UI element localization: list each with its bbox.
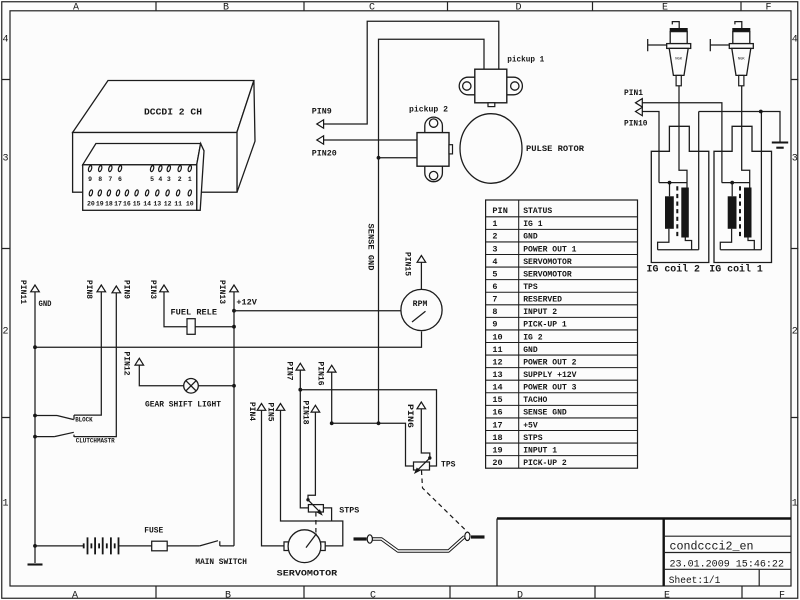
svg-text:PIN9: PIN9 bbox=[122, 280, 131, 299]
svg-text:9: 9 bbox=[492, 320, 497, 330]
svg-text:19: 19 bbox=[96, 201, 104, 208]
svg-text:20: 20 bbox=[87, 201, 95, 208]
throttle left stub bbox=[354, 537, 367, 540]
svg-text:STPS: STPS bbox=[339, 506, 359, 515]
pin arrow PIN12 bbox=[135, 358, 144, 365]
svg-text:14: 14 bbox=[492, 383, 502, 393]
svg-text:14: 14 bbox=[143, 201, 151, 208]
svg-text:18: 18 bbox=[492, 433, 502, 443]
spark plug P1 bbox=[710, 22, 753, 86]
pickup2 body bbox=[417, 133, 449, 167]
pin arrow PIN18 bbox=[311, 405, 320, 412]
svg-text:4: 4 bbox=[3, 35, 9, 46]
throttle right stub bbox=[471, 535, 485, 538]
wire battery to fuse bbox=[119, 545, 152, 547]
STPS right lead bbox=[323, 508, 331, 521]
servo needle bbox=[306, 534, 317, 548]
svg-text:1: 1 bbox=[188, 176, 192, 183]
RPM needle bbox=[412, 311, 426, 322]
wire PIN6 to TPS wiper bbox=[421, 409, 430, 458]
svg-text:8: 8 bbox=[492, 307, 497, 317]
DCCDI box top face bbox=[73, 81, 254, 133]
svg-text:PIN10: PIN10 bbox=[624, 120, 648, 129]
node +12V/lamp bbox=[232, 384, 236, 388]
svg-text:PULSE ROTOR: PULSE ROTOR bbox=[526, 145, 584, 154]
svg-text:POWER OUT 2: POWER OUT 2 bbox=[523, 357, 576, 367]
svg-text:PIN11: PIN11 bbox=[18, 280, 27, 304]
svg-text:FUEL RELE: FUEL RELE bbox=[171, 307, 218, 317]
svg-text:4: 4 bbox=[158, 176, 162, 183]
svg-text:9: 9 bbox=[88, 176, 92, 183]
svg-text:F: F bbox=[779, 591, 785, 600]
svg-text:pickup 2: pickup 2 bbox=[409, 105, 448, 114]
wire PIN4 to servo bbox=[262, 410, 285, 546]
svg-text:A: A bbox=[73, 2, 79, 13]
frame column ticks top bbox=[156, 2, 741, 11]
gauge RPM bbox=[401, 289, 442, 330]
svg-text:TPS: TPS bbox=[523, 282, 538, 292]
fuse F1 bbox=[144, 527, 167, 551]
throttle linkage rod bbox=[354, 532, 485, 551]
svg-text:5: 5 bbox=[492, 269, 497, 279]
svg-text:GND: GND bbox=[39, 300, 52, 309]
svg-text:6: 6 bbox=[492, 282, 497, 292]
svg-text:19: 19 bbox=[492, 445, 502, 455]
svg-text:PIN9: PIN9 bbox=[312, 108, 332, 117]
dashed link STPS to servo bbox=[315, 512, 317, 534]
connector top pin slots 9..6 and 5..1 bbox=[88, 165, 192, 172]
wire tacho ground bus bbox=[35, 332, 422, 348]
svg-text:PIN8: PIN8 bbox=[84, 280, 93, 299]
dashed link TPS to throttle bbox=[422, 471, 468, 533]
svg-text:RPM: RPM bbox=[413, 300, 428, 309]
svg-text:IG 1: IG 1 bbox=[523, 219, 542, 229]
wire TPS left branch bbox=[332, 423, 414, 466]
svg-text:STATUS: STATUS bbox=[523, 206, 552, 216]
node +12V/relay bbox=[232, 325, 236, 329]
svg-text:2: 2 bbox=[792, 327, 798, 338]
svg-text:+12V: +12V bbox=[236, 299, 257, 308]
pin arrow PIN11 bbox=[31, 285, 40, 292]
svg-text:IG coil 2: IG coil 2 bbox=[647, 263, 701, 275]
pulse rotor bbox=[460, 114, 522, 184]
svg-text:4: 4 bbox=[492, 257, 497, 267]
svg-text:SENSE GND: SENSE GND bbox=[523, 408, 567, 418]
wire pickup2 lower terminal bbox=[379, 157, 418, 159]
svg-text:INPUT 1: INPUT 1 bbox=[523, 445, 557, 455]
connector right face bbox=[197, 144, 204, 211]
svg-text:10: 10 bbox=[186, 201, 194, 208]
wire PIN9 to CLUTCHMASTR bbox=[74, 293, 116, 437]
svg-text:4: 4 bbox=[792, 35, 798, 46]
DCCDI unit U1 (3D box) bbox=[73, 81, 255, 193]
TPS wiper arrow bbox=[417, 458, 430, 470]
svg-text:PIN18: PIN18 bbox=[301, 401, 310, 425]
svg-text:13: 13 bbox=[492, 370, 502, 380]
svg-text:FUSE: FUSE bbox=[144, 527, 163, 536]
connector top face bbox=[83, 144, 201, 165]
svg-text:3: 3 bbox=[3, 154, 9, 165]
ground GND rail bbox=[28, 563, 43, 565]
spark plug P2 bbox=[648, 22, 691, 86]
node gnd/tacho junction bbox=[33, 345, 37, 349]
svg-text:BLOCK: BLOCK bbox=[75, 416, 93, 423]
svg-text:GND: GND bbox=[523, 232, 538, 242]
pickup1 body bbox=[475, 69, 507, 103]
relay FUEL RELE bbox=[171, 307, 235, 334]
table outline bbox=[486, 200, 638, 468]
svg-text:1: 1 bbox=[3, 499, 9, 510]
connector bottom pin numbers bbox=[87, 201, 194, 208]
DCCDI box right face bbox=[237, 81, 255, 193]
pin arrow PIN5 bbox=[276, 404, 285, 411]
svg-text:PIN5: PIN5 bbox=[266, 403, 275, 422]
svg-text:5: 5 bbox=[150, 176, 154, 183]
node +12V/rpm feed bbox=[232, 309, 236, 313]
svg-text:IG coil 1: IG coil 1 bbox=[709, 263, 763, 275]
potentiometer STPS bbox=[306, 498, 359, 521]
svg-text:16: 16 bbox=[123, 201, 131, 208]
wire PIN7 to STPS left bbox=[300, 370, 308, 508]
wire +12V feed to RPM bbox=[234, 310, 401, 312]
switch MAIN SWITCH bbox=[195, 541, 247, 567]
svg-text:DCCDI 2 CH: DCCDI 2 CH bbox=[144, 107, 202, 118]
node PIN16/line junction bbox=[330, 421, 334, 425]
wire PIN16 to TPS left line bbox=[331, 372, 333, 423]
svg-text:+5V: +5V bbox=[523, 420, 538, 430]
pin arrow PIN6 bbox=[417, 402, 426, 409]
pickup1 right ear bbox=[507, 77, 523, 95]
svg-text:SUPPLY +12V: SUPPLY +12V bbox=[523, 370, 577, 380]
wire SENSE GND vertical bbox=[378, 158, 380, 424]
wire PIN1 to coil1 bbox=[642, 103, 722, 183]
svg-text:16: 16 bbox=[492, 408, 502, 418]
svg-text:F: F bbox=[766, 2, 772, 13]
svg-text:13: 13 bbox=[153, 201, 161, 208]
frame row numbers right bbox=[792, 35, 798, 510]
svg-text:11: 11 bbox=[492, 345, 502, 355]
ignition coil IG coil 1 bbox=[714, 86, 772, 263]
pin table bbox=[486, 200, 638, 468]
svg-text:SENSE GND: SENSE GND bbox=[365, 224, 374, 271]
STPS wiper arrow bbox=[308, 500, 320, 512]
DCCDI box front face bbox=[73, 133, 237, 193]
svg-text:E: E bbox=[664, 591, 670, 600]
potentiometer TPS bbox=[414, 456, 456, 474]
wire +12V rail vertical bbox=[233, 292, 235, 546]
pin arrow PIN9 (left) bbox=[317, 120, 324, 128]
svg-text:PIN16: PIN16 bbox=[315, 362, 324, 386]
svg-text:11: 11 bbox=[174, 201, 182, 208]
svg-text:PIN12: PIN12 bbox=[121, 352, 130, 376]
pickup2 right nub bbox=[449, 145, 453, 154]
wire PIN5 to servo right bbox=[281, 410, 343, 546]
pin arrow PIN7 bbox=[296, 363, 305, 370]
svg-text:PIN4: PIN4 bbox=[247, 402, 256, 421]
wire PIN8 to BLOCK bbox=[74, 292, 101, 420]
table row lines bbox=[486, 217, 638, 456]
svg-text:GND: GND bbox=[523, 345, 538, 355]
ignition coil IG coil 2 bbox=[651, 86, 709, 263]
frame column letters bottom bbox=[72, 591, 785, 600]
svg-text:20: 20 bbox=[492, 458, 502, 468]
svg-text:17: 17 bbox=[114, 201, 122, 208]
throttle left ball bbox=[367, 535, 372, 543]
svg-text:SERVOMOTOR: SERVOMOTOR bbox=[277, 569, 338, 578]
svg-text:INPUT 2: INPUT 2 bbox=[523, 307, 557, 317]
pin arrow PIN9 bbox=[112, 286, 121, 293]
svg-text:SERVOMOTOR: SERVOMOTOR bbox=[523, 257, 572, 267]
pin arrow PIN15 bbox=[417, 256, 426, 263]
pickup2 top ear bbox=[425, 117, 443, 133]
svg-text:15: 15 bbox=[492, 395, 502, 405]
svg-text:PICK-UP 1: PICK-UP 1 bbox=[523, 320, 567, 330]
svg-text:PICK-UP 2: PICK-UP 2 bbox=[523, 458, 567, 468]
pin arrow PIN10 (left) bbox=[636, 107, 643, 115]
pin arrow PIN8 bbox=[97, 285, 106, 292]
svg-text:POWER OUT 3: POWER OUT 3 bbox=[523, 383, 576, 393]
node gnd/battery junction bbox=[33, 544, 37, 548]
svg-text:Sheet:1/1: Sheet:1/1 bbox=[669, 575, 721, 587]
pin arrow PIN3 bbox=[160, 285, 169, 292]
svg-text:pickup 1: pickup 1 bbox=[507, 56, 544, 65]
wire battery feed bbox=[35, 545, 84, 547]
svg-text:8: 8 bbox=[98, 176, 102, 183]
svg-text:18: 18 bbox=[105, 201, 113, 208]
svg-text:IG 2: IG 2 bbox=[523, 332, 542, 342]
svg-text:TACHO: TACHO bbox=[523, 395, 547, 405]
node sense-gnd/line junction bbox=[377, 421, 381, 425]
pickup1 bottom nub bbox=[488, 103, 495, 107]
table column divider bbox=[518, 200, 520, 468]
svg-text:3: 3 bbox=[492, 244, 497, 254]
wire PIN3 to relay bbox=[164, 292, 187, 327]
svg-text:10: 10 bbox=[492, 332, 502, 342]
svg-text:PIN6: PIN6 bbox=[405, 404, 414, 428]
svg-text:1: 1 bbox=[492, 219, 497, 229]
wire coil common line bbox=[699, 112, 780, 143]
svg-text:B: B bbox=[225, 591, 231, 600]
wire PIN10 to coil2 bbox=[642, 112, 659, 183]
svg-text:POWER OUT 1: POWER OUT 1 bbox=[523, 244, 576, 254]
svg-text:STPS: STPS bbox=[523, 433, 542, 443]
wire PIN15 to RPM bbox=[420, 262, 422, 289]
wire fuse to switch bbox=[167, 545, 200, 547]
svg-text:PIN1: PIN1 bbox=[624, 89, 643, 98]
svg-text:MAIN SWITCH: MAIN SWITCH bbox=[195, 558, 247, 567]
pin arrow PIN16 bbox=[327, 365, 336, 372]
svg-text:17: 17 bbox=[492, 420, 502, 430]
ground coil common bbox=[772, 141, 788, 143]
pin arrow PIN20 (left) bbox=[317, 136, 324, 144]
svg-text:RESERVED: RESERVED bbox=[523, 295, 562, 305]
svg-text:PIN7: PIN7 bbox=[285, 362, 294, 381]
battery B1 bbox=[84, 537, 119, 554]
svg-text:D: D bbox=[516, 2, 522, 13]
node junction pickup2/sense bbox=[377, 156, 381, 160]
svg-text:2: 2 bbox=[178, 176, 182, 183]
svg-text:3: 3 bbox=[167, 176, 171, 183]
wire pickup1 second terminal loop bbox=[379, 39, 485, 158]
wire pickup1 outer loop to PIN9 bbox=[324, 21, 499, 124]
svg-text:C: C bbox=[369, 2, 375, 13]
svg-text:12: 12 bbox=[164, 201, 172, 208]
svg-text:C: C bbox=[370, 591, 376, 600]
frame row numbers left bbox=[3, 35, 9, 510]
title block bbox=[497, 519, 791, 588]
svg-text:A: A bbox=[72, 591, 78, 600]
svg-text:condccci2_en: condccci2_en bbox=[670, 539, 754, 553]
svg-text:23.01.2009 15:46:22: 23.01.2009 15:46:22 bbox=[670, 558, 785, 570]
svg-text:B: B bbox=[223, 2, 229, 13]
node PIN7/TPS branch bbox=[298, 388, 302, 392]
svg-text:2: 2 bbox=[3, 327, 9, 338]
connector bottom pin slots 20..10 bbox=[89, 190, 192, 197]
node coil1 common tap bbox=[759, 110, 763, 114]
svg-text:E: E bbox=[662, 2, 668, 13]
svg-text:1: 1 bbox=[792, 499, 798, 510]
svg-text:7: 7 bbox=[108, 176, 112, 183]
svg-text:3: 3 bbox=[792, 154, 798, 165]
frame row ticks left bbox=[2, 80, 10, 418]
connector top pin numbers bbox=[88, 176, 192, 183]
wire PIN18 to STPS wiper bbox=[308, 412, 315, 500]
lamp GEAR SHIFT LIGHT bbox=[145, 379, 234, 410]
frame column letters top bbox=[73, 2, 772, 13]
switch BLOCK bbox=[33, 414, 93, 424]
svg-text:15: 15 bbox=[133, 201, 141, 208]
frame column ticks bottom bbox=[156, 586, 742, 598]
pickup 1 sensor bbox=[459, 56, 544, 107]
pickup2 bottom ear bbox=[425, 166, 443, 182]
svg-text:PIN15: PIN15 bbox=[403, 252, 412, 276]
servomotor M1 bbox=[277, 530, 338, 579]
svg-text:SERVOMOTOR: SERVOMOTOR bbox=[523, 269, 572, 279]
svg-text:PIN: PIN bbox=[492, 206, 508, 216]
pin arrow PIN4 bbox=[257, 404, 266, 411]
svg-text:PIN13: PIN13 bbox=[217, 280, 226, 304]
wire GND rail vertical bbox=[34, 292, 36, 563]
wire TPS right branch bbox=[300, 390, 436, 466]
svg-text:D: D bbox=[517, 591, 523, 600]
pickup1 left ear bbox=[459, 77, 475, 95]
svg-text:6: 6 bbox=[118, 176, 122, 183]
svg-text:CLUTCHMASTR: CLUTCHMASTR bbox=[76, 438, 115, 445]
svg-text:PIN20: PIN20 bbox=[312, 149, 337, 158]
switch CLUTCHMASTR bbox=[33, 432, 115, 444]
svg-text:PIN3: PIN3 bbox=[148, 280, 157, 299]
wire PIN20 to pickup2 bbox=[324, 139, 417, 141]
throttle right ball bbox=[465, 532, 470, 540]
svg-text:GEAR SHIFT LIGHT: GEAR SHIFT LIGHT bbox=[145, 401, 221, 410]
svg-text:2: 2 bbox=[492, 232, 497, 242]
pin arrow PIN13 bbox=[230, 285, 239, 292]
svg-text:TPS: TPS bbox=[441, 460, 456, 469]
connector J1 (3D box) bbox=[83, 144, 204, 211]
connector front face bbox=[83, 165, 197, 211]
pin arrow PIN1 (left) bbox=[636, 99, 643, 107]
wire PIN12 to lamp bbox=[139, 365, 183, 386]
svg-text:7: 7 bbox=[492, 295, 497, 305]
svg-text:12: 12 bbox=[492, 357, 502, 367]
frame row ticks right bbox=[791, 80, 798, 418]
pickup 2 sensor bbox=[409, 105, 453, 181]
